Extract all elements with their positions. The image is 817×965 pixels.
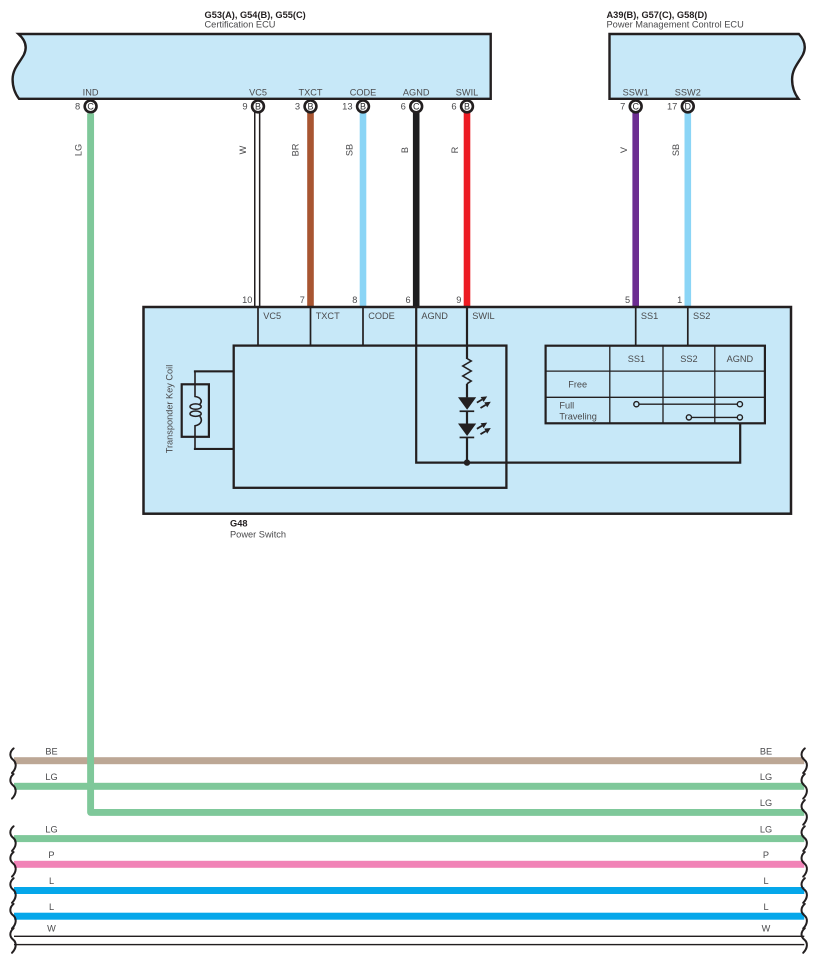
pin label SS2 [693,311,710,321]
svg-text:G53(A), G54(B), G55(C): G53(A), G54(B), G55(C) [205,10,306,20]
svg-text:AGND: AGND [403,88,430,98]
pin VC5 9(B) [242,88,267,113]
bus wire LG y=786 [10,772,807,799]
svg-text:17: 17 [667,101,677,112]
ECU box A39/G57/G58 Power Management Control ECU [610,34,805,99]
svg-text:R: R [450,146,460,153]
svg-text:L: L [49,902,54,912]
transponder key coil box [182,384,209,437]
bus wire LG y=839 [10,824,807,851]
wire LED1 to LED2 [466,412,468,424]
svg-text:LG: LG [73,144,83,156]
svg-text:6: 6 [405,295,410,305]
svg-text:TXCT: TXCT [316,311,340,321]
wire SB (SSW2) [685,112,692,307]
wire coil top to unit [194,370,234,372]
svg-text:V: V [619,146,629,153]
svg-text:8: 8 [352,295,357,305]
svg-text:C: C [632,101,639,111]
svg-text:A39(B), G57(C), G58(D): A39(B), G57(C), G58(D) [607,10,708,20]
stub wire SS1 [635,307,637,346]
svg-text:SSW1: SSW1 [623,88,649,98]
wire label R [450,146,460,153]
svg-text:BE: BE [45,746,57,756]
svg-text:Certification ECU: Certification ECU [205,20,276,30]
wire SB (CODE) [360,112,367,307]
wire label BR [290,143,300,156]
svg-text:VC5: VC5 [249,88,267,98]
table header SS2 [680,354,697,364]
svg-text:L: L [763,902,768,912]
svg-text:CODE: CODE [350,88,377,98]
svg-text:W: W [47,924,56,934]
bus wire W y=941 [10,924,807,953]
pin number 1 [677,295,682,305]
svg-text:G48: G48 [230,518,247,528]
svg-text:C: C [87,101,94,111]
bus wire L y=916 [10,902,807,929]
pin TXCT 3(B) [295,88,323,113]
svg-text:BR: BR [290,143,300,156]
svg-text:BE: BE [760,746,772,756]
svg-text:Traveling: Traveling [559,412,596,422]
contact SS1-AGND [634,402,743,407]
LED D2 [458,423,491,439]
contact SS2-AGND [686,415,742,420]
pin SWIL 6(B) [451,88,478,113]
wire coil bottom to unit [194,448,234,450]
svg-text:Power Switch: Power Switch [230,529,286,539]
table row Full Traveling [559,401,596,422]
wire LG (IND to splice) vertical with elbow [91,113,805,812]
label Power Switch [230,529,286,539]
wire B (AGND) [413,112,420,307]
pin number 10 [242,295,252,305]
wire label SB 2 [671,144,681,156]
svg-text:SWIL: SWIL [456,88,478,98]
coil inductor L1 [190,372,201,449]
svg-text:D: D [685,101,692,111]
svg-text:TXCT: TXCT [299,88,323,98]
svg-text:Full: Full [559,401,574,411]
svg-text:LG: LG [45,824,57,834]
pin number 9 [456,295,461,305]
wire AGND net [416,307,740,463]
svg-text:LG: LG [45,772,57,782]
wire W (VC5) white with black edges [254,112,260,307]
svg-text:6: 6 [451,101,456,112]
svg-text:L: L [763,876,768,886]
pin number 8 [352,295,357,305]
resistor R1 [463,359,471,384]
wire resistor to LED1 [466,384,468,398]
LED D1 [458,396,491,412]
pin label VC5 [263,311,281,321]
svg-text:B: B [464,101,470,111]
wire label SB [345,144,355,156]
stub wire TXCT [310,307,312,346]
svg-text:SS2: SS2 [693,311,710,321]
svg-text:W: W [762,924,771,934]
pin CODE 13(B) [342,88,376,113]
svg-text:9: 9 [456,295,461,305]
ECU box G53/G54/G55 Certification ECU [13,34,491,99]
svg-text:SB: SB [345,144,355,156]
wire V (SSW1) [632,112,639,307]
title G53(A), G54(B), G55(C) [205,10,306,20]
pin label CODE [368,311,395,321]
bus wire P y=864 [10,850,807,877]
pin number 5 [625,295,630,305]
svg-text:13: 13 [342,101,352,112]
subtitle Certification ECU [205,20,276,30]
svg-text:SS2: SS2 [680,354,697,364]
svg-text:SS1: SS1 [641,311,658,321]
svg-text:Power Management Control ECU: Power Management Control ECU [607,20,744,30]
label G48 [230,518,247,528]
svg-text:LG: LG [760,798,772,808]
svg-text:B: B [400,147,410,153]
title A39(B), G57(C), G58(D) [607,10,708,20]
subtitle Power Management Control ECU [607,20,744,30]
wire SWIL inside switch [466,307,468,359]
svg-text:C: C [413,101,420,111]
pin SSW1 7(C) [620,88,649,113]
table row Free [568,380,587,390]
table header AGND [727,354,754,364]
svg-text:SSW2: SSW2 [675,88,701,98]
pin SSW2 17(D) [667,88,701,113]
svg-text:AGND: AGND [421,311,448,321]
pin number 7 [300,295,305,305]
pin label SWIL [472,311,494,321]
bus wire LG y=812 [760,798,807,825]
svg-text:SB: SB [671,144,681,156]
junction dot [464,459,470,465]
bus wire BE y=761 [10,746,807,773]
table header SS1 [628,354,645,364]
svg-text:P: P [48,850,54,860]
svg-text:10: 10 [242,295,252,305]
svg-text:LG: LG [760,824,772,834]
svg-text:1: 1 [677,295,682,305]
wire label W [238,145,248,154]
svg-text:VC5: VC5 [263,311,281,321]
svg-text:6: 6 [401,101,406,112]
svg-text:B: B [255,101,261,111]
svg-text:Free: Free [568,380,587,390]
pin number 6 [405,295,410,305]
svg-text:3: 3 [295,101,300,112]
wire label V [619,146,629,153]
inner switch unit box [234,346,507,488]
bus wire L y=890 [10,876,807,903]
wire label B [400,147,410,153]
G48 Power Switch box [144,307,792,514]
svg-text:8: 8 [75,101,80,112]
svg-text:LG: LG [760,772,772,782]
pin AGND 6(C) [401,88,430,113]
stub wire CODE [362,307,364,346]
stub wire SS2 [687,307,689,346]
svg-text:SWIL: SWIL [472,311,494,321]
wire R (SWIL) [464,112,471,307]
svg-text:IND: IND [83,88,99,98]
svg-text:7: 7 [300,295,305,305]
label Transponder Key Coil [164,365,174,454]
svg-text:9: 9 [242,101,247,112]
svg-text:L: L [49,876,54,886]
pin label TXCT [316,311,340,321]
stub wire VC5 [257,307,259,346]
svg-text:5: 5 [625,295,630,305]
svg-text:Transponder Key Coil: Transponder Key Coil [164,365,174,454]
wire LED2 to AGND line [466,438,468,463]
svg-text:B: B [360,101,366,111]
svg-text:P: P [763,850,769,860]
switch position table [546,346,765,424]
wire label LG [73,144,83,156]
pin label AGND [421,311,448,321]
svg-text:CODE: CODE [368,311,395,321]
wire BR (TXCT) [307,112,314,307]
svg-text:7: 7 [620,101,625,112]
svg-text:AGND: AGND [727,354,754,364]
pin label SS1 [641,311,658,321]
pin IND 8(C) [75,88,99,113]
svg-text:W: W [238,145,248,154]
svg-text:B: B [307,101,313,111]
svg-text:SS1: SS1 [628,354,645,364]
